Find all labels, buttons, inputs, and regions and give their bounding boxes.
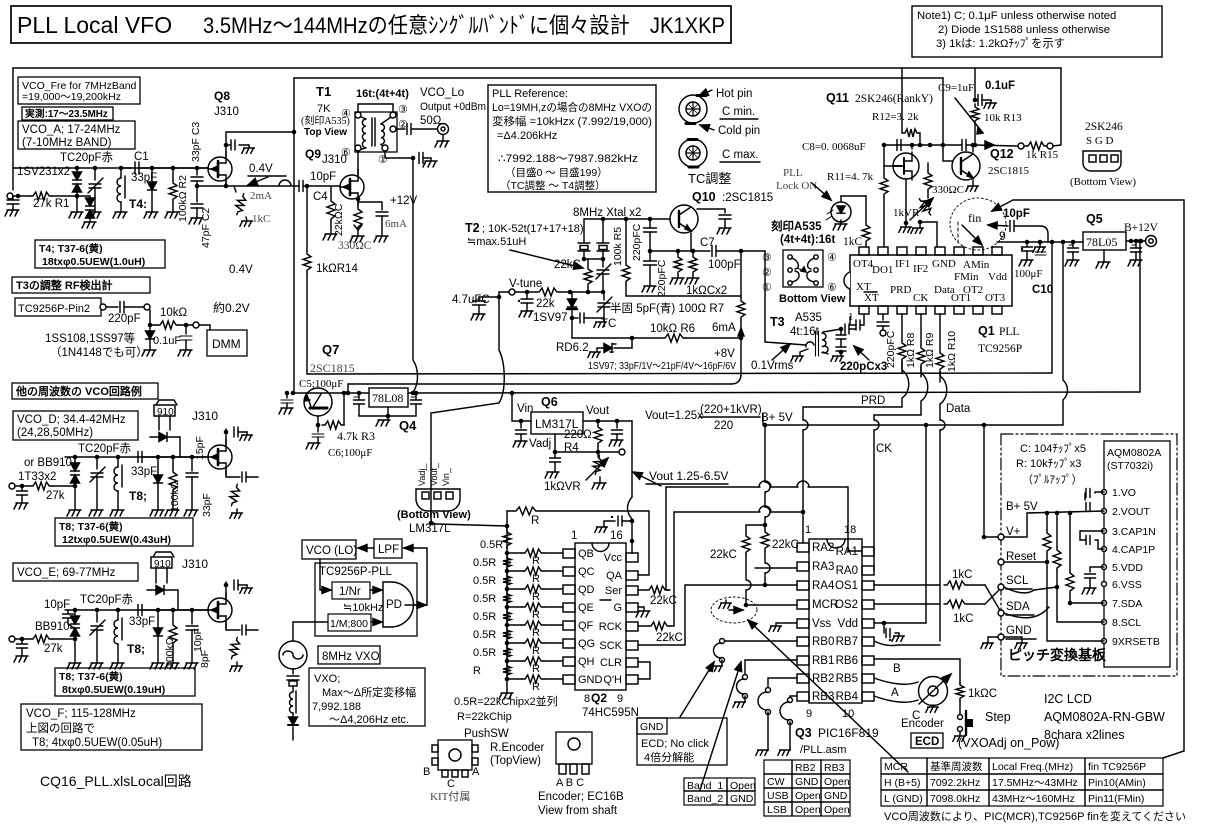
svg-text:100kΩ: 100kΩ bbox=[164, 637, 176, 668]
capacitor C1 33pF bbox=[121, 167, 131, 169]
svg-text:OT3: OT3 bbox=[985, 292, 1006, 304]
pushsw pkg bbox=[438, 740, 472, 770]
595 right pin stubs+labels bbox=[626, 553, 638, 562]
svg-text:VCO_F; 115-128MHz: VCO_F; 115-128MHz bbox=[26, 708, 136, 720]
resistor R2 100k bbox=[171, 166, 176, 171]
svg-text:220Ω: 220Ω bbox=[564, 429, 592, 441]
svg-text:0.5R: 0.5R bbox=[473, 647, 496, 659]
hot pin arrow+label bbox=[699, 90, 712, 96]
T1 winding right bbox=[381, 124, 384, 144]
LM317 adj pin bbox=[554, 434, 556, 452]
svg-text:C: C bbox=[447, 778, 455, 790]
svg-text:（目盛0 ～ 目盛199）: （目盛0 ～ 目盛199） bbox=[505, 166, 608, 179]
cap at B12 bbox=[1131, 248, 1142, 252]
svg-text:LPF: LPF bbox=[378, 544, 399, 556]
xtal bottom rail bbox=[584, 258, 603, 260]
svg-text:TC20pF赤: TC20pF赤 bbox=[78, 442, 132, 455]
line y145 bbox=[884, 144, 962, 146]
svg-text:2mA: 2mA bbox=[250, 190, 272, 202]
diode 910 VCO_E bbox=[156, 586, 164, 595]
svg-text:FMin: FMin bbox=[954, 271, 979, 283]
svg-text:330ΩC: 330ΩC bbox=[338, 240, 372, 252]
Q11 drain up bbox=[911, 145, 913, 149]
source bypass cap 6mA bbox=[358, 202, 382, 210]
svg-text:CK: CK bbox=[876, 443, 892, 455]
svg-text:GND: GND bbox=[578, 674, 603, 686]
220pC caps stack bbox=[845, 324, 849, 334]
series cap to trimmer bbox=[572, 317, 578, 319]
svg-text:9: 9 bbox=[617, 693, 623, 705]
svg-text:(4t+4t):16t: (4t+4t):16t bbox=[780, 234, 835, 246]
svg-text:ECD: ECD bbox=[915, 736, 939, 748]
wire y487 Ser to RA1 bbox=[666, 486, 760, 488]
svg-text:1kΩ R8: 1kΩ R8 bbox=[905, 333, 917, 368]
arrows into PD bbox=[370, 589, 382, 591]
svg-text:Q11: Q11 bbox=[826, 91, 849, 105]
svg-text:QB: QB bbox=[578, 548, 594, 560]
svg-text:VXO;: VXO; bbox=[314, 673, 340, 685]
resistor 100k R5 bbox=[625, 219, 627, 262]
svg-text:0.4V: 0.4V bbox=[249, 163, 273, 175]
svg-text:33pF: 33pF bbox=[129, 616, 155, 628]
svg-text:Q4: Q4 bbox=[399, 418, 417, 433]
varactor below bbox=[292, 713, 294, 717]
svg-text:100k R5: 100k R5 bbox=[612, 227, 624, 266]
arrow into 1/Nr bbox=[320, 589, 331, 591]
emitter resistors 1k Cx2 bbox=[677, 251, 679, 254]
transistor Q9 fet bbox=[340, 175, 364, 199]
Vin caps bbox=[520, 421, 522, 428]
cap C9 diag note line bbox=[955, 98, 983, 133]
ladder series R 6 bbox=[522, 639, 544, 647]
svg-text:10pF: 10pF bbox=[44, 599, 70, 611]
svg-text:6.VSS: 6.VSS bbox=[1112, 579, 1142, 591]
coax terminal bbox=[438, 124, 449, 135]
svg-text:V+: V+ bbox=[1006, 526, 1021, 538]
svg-text:TC9256P-PLL: TC9256P-PLL bbox=[319, 566, 392, 578]
more caps right bbox=[1068, 248, 1079, 252]
svg-text:1: 1 bbox=[848, 311, 854, 323]
svg-text:VCO (LO): VCO (LO) bbox=[306, 545, 357, 557]
capacitor C3 33pF bbox=[195, 166, 200, 171]
rail y78 bbox=[294, 77, 943, 79]
svg-text:J310: J310 bbox=[192, 409, 218, 423]
arrow gnd box bbox=[680, 662, 714, 717]
ladder 0.5R segment 2 bbox=[503, 555, 511, 570]
fin arrows bbox=[962, 225, 982, 245]
svg-text:8MHz VXO: 8MHz VXO bbox=[322, 651, 380, 663]
svg-text:上図の回路で: 上図の回路で bbox=[26, 721, 95, 735]
wire right vertical 984 to V+ bbox=[984, 425, 998, 537]
svg-text:8.SCL: 8.SCL bbox=[1112, 617, 1141, 629]
svg-text:QA: QA bbox=[606, 570, 623, 582]
svg-text:220pFC: 220pFC bbox=[656, 259, 668, 297]
svg-text:T1: T1 bbox=[316, 84, 331, 99]
svg-text:SDA: SDA bbox=[1006, 601, 1030, 613]
svg-text:220pF: 220pF bbox=[108, 313, 141, 325]
arrow mcr table bbox=[748, 620, 908, 772]
svg-text:C8=0. 0068uF: C8=0. 0068uF bbox=[802, 141, 866, 153]
G gnd bbox=[638, 607, 644, 611]
svg-text:1kC: 1kC bbox=[252, 213, 270, 225]
riser RCK x674 bbox=[673, 512, 675, 626]
svg-text:T2: T2 bbox=[465, 221, 480, 235]
svg-text:GND: GND bbox=[795, 776, 819, 788]
cold pin arrow+label bbox=[700, 125, 714, 130]
VCO freq note box bbox=[18, 77, 140, 104]
svg-text:GND: GND bbox=[640, 721, 664, 733]
svg-text:OS1: OS1 bbox=[835, 580, 858, 592]
svg-text:Q12: Q12 bbox=[990, 147, 1014, 161]
ground input bbox=[5, 210, 19, 216]
svg-text:RB3: RB3 bbox=[824, 762, 845, 774]
ladder 0.5R segment 6 bbox=[503, 627, 511, 642]
wire osc to 1/M bbox=[293, 622, 328, 641]
svg-text:22kC: 22kC bbox=[650, 595, 677, 607]
res R10 bbox=[939, 314, 941, 350]
adj cap bbox=[550, 458, 561, 462]
svg-text:1kC: 1kC bbox=[843, 236, 863, 248]
svg-text:VCO_A; 17-24MHz: VCO_A; 17-24MHz bbox=[22, 124, 121, 136]
title box bbox=[11, 6, 731, 43]
T3 adjust box bbox=[12, 277, 150, 293]
svg-text:③: ③ bbox=[398, 104, 408, 116]
svg-text:RB2: RB2 bbox=[795, 762, 816, 774]
wire input bus bbox=[13, 195, 30, 197]
svg-text:(Bottom View): (Bottom View) bbox=[1070, 176, 1136, 188]
svg-text:0.5R=22kChipx2並列: 0.5R=22kChipx2並列 bbox=[454, 694, 558, 708]
cap 220pF bbox=[106, 306, 118, 308]
Band table bbox=[684, 778, 755, 805]
595 left pin stubs+labels bbox=[563, 549, 575, 558]
svg-text:R.Encoder: R.Encoder bbox=[490, 742, 545, 754]
svg-text:PLL Local VFO: PLL Local VFO bbox=[17, 12, 172, 38]
svg-text:0.1uF: 0.1uF bbox=[985, 80, 1015, 92]
910 pkg VCO_E bbox=[151, 552, 174, 568]
adj wire bbox=[555, 451, 598, 453]
svg-text:①: ① bbox=[378, 154, 388, 166]
svg-text:100kΩ: 100kΩ bbox=[169, 481, 181, 512]
78L08 caps bbox=[358, 393, 360, 399]
svg-text:T4; T37-6(黄): T4; T37-6(黄) bbox=[39, 242, 103, 255]
svg-text:J310: J310 bbox=[322, 154, 347, 166]
IC Q1 TC9256P body bbox=[850, 255, 1012, 306]
wire fin rail bbox=[997, 241, 1083, 243]
svg-text:MCR: MCR bbox=[884, 761, 908, 773]
svg-text:Vin_: Vin_ bbox=[441, 467, 451, 486]
IC Q1 bottom pins bbox=[859, 306, 869, 314]
svg-text:QE: QE bbox=[578, 602, 594, 614]
svg-text:RA1: RA1 bbox=[836, 546, 858, 558]
svg-text:4倍分解能: 4倍分解能 bbox=[644, 750, 694, 764]
svg-text:7K: 7K bbox=[317, 103, 331, 115]
svg-text:AQM0802A: AQM0802A bbox=[1107, 447, 1161, 459]
A535 bottom view box bbox=[783, 250, 823, 287]
svg-text:=19,000～19,200kHz: =19,000～19,200kHz bbox=[22, 91, 121, 103]
svg-text:C6;100μF: C6;100μF bbox=[328, 447, 372, 459]
bus PRD bbox=[902, 362, 909, 407]
RB1 wire long bbox=[745, 660, 797, 677]
svg-text:1/Nr: 1/Nr bbox=[339, 586, 361, 598]
xtal below osc bbox=[292, 669, 294, 674]
TC9256P-Pin2 box bbox=[15, 298, 101, 316]
T3 primary leads bbox=[765, 342, 806, 345]
svg-text:1kΩCx2: 1kΩCx2 bbox=[686, 285, 727, 297]
svg-text:2SC1815: 2SC1815 bbox=[310, 361, 355, 375]
cap 4.7uF bbox=[479, 296, 499, 298]
T1 core bbox=[372, 118, 375, 146]
svg-text:C min.: C min. bbox=[722, 106, 755, 118]
cap C6 bbox=[317, 425, 319, 432]
svg-text:Band_2: Band_2 bbox=[687, 793, 723, 805]
svg-text:Q9: Q9 bbox=[305, 147, 321, 161]
svg-text:Step: Step bbox=[985, 710, 1011, 724]
svg-text:PIC16F819: PIC16F819 bbox=[818, 726, 879, 740]
svg-text:3.CAP1N: 3.CAP1N bbox=[1112, 526, 1156, 538]
capacitor C2 47pF bbox=[196, 186, 198, 202]
RB7 wire to Data bbox=[874, 641, 898, 646]
IC Q2 74HC595 body bbox=[575, 543, 626, 690]
svg-text:V-tune: V-tune bbox=[509, 278, 542, 290]
T2 arrow bbox=[510, 250, 583, 268]
T4 note box bbox=[35, 240, 165, 268]
78L05 gnd pin bbox=[1103, 250, 1105, 262]
svg-text:RB4: RB4 bbox=[836, 691, 859, 703]
resistor R7 vertical bbox=[737, 298, 745, 320]
svg-text:8txφ0.5UEW(0.19uH): 8txφ0.5UEW(0.19uH) bbox=[62, 684, 165, 696]
svg-text:10pF: 10pF bbox=[1003, 208, 1030, 220]
svg-text:5.VDD: 5.VDD bbox=[1112, 562, 1143, 574]
IC Q3 PIC16F819 body bbox=[809, 539, 862, 703]
wire bus B5V horizontal bbox=[763, 414, 1063, 425]
svg-text:16: 16 bbox=[610, 530, 623, 542]
res 10k bbox=[150, 310, 157, 325]
RB6 wire bbox=[874, 659, 960, 684]
svg-text:～Δ4,206Hz etc.: ～Δ4,206Hz etc. bbox=[329, 714, 409, 726]
T3 transformer bbox=[816, 331, 819, 356]
svg-text:8pF: 8pF bbox=[199, 650, 211, 668]
pullup1 down to MCR ellipse bbox=[745, 555, 747, 579]
cap det bbox=[185, 325, 187, 334]
Vcc bypass cap bbox=[618, 516, 622, 526]
svg-text:GND: GND bbox=[1006, 625, 1032, 637]
V-tune terminal bbox=[509, 289, 515, 295]
res 22k vtune bbox=[536, 288, 560, 296]
VCO_F box bbox=[21, 704, 202, 750]
trimmer cap TC20pF bbox=[93, 166, 98, 171]
caps cap1n/p bbox=[1086, 536, 1090, 545]
svg-text:TC調整: TC調整 bbox=[688, 171, 731, 186]
1kC resistor LED bbox=[862, 222, 870, 244]
svg-text:1kΩ R9: 1kΩ R9 bbox=[924, 333, 936, 368]
varactor D2 lower bbox=[73, 184, 82, 192]
R5 bottom line to R7 bbox=[626, 295, 741, 297]
Q7 emitter R3 bbox=[317, 416, 319, 425]
svg-text:RB0: RB0 bbox=[812, 636, 834, 648]
riser SCK x685 to RA4 bbox=[638, 585, 797, 645]
svg-text:R: R bbox=[531, 515, 539, 527]
svg-text:Q8: Q8 bbox=[214, 89, 230, 103]
svg-text:C: 104ﾁｯﾌﾟx5: C: 104ﾁｯﾌﾟx5 bbox=[1020, 442, 1086, 455]
svg-text:100kΩ R2: 100kΩ R2 bbox=[177, 175, 189, 222]
svg-text:Data: Data bbox=[946, 403, 971, 415]
ladder series R 5 bbox=[522, 621, 544, 629]
svg-text:Cold pin: Cold pin bbox=[718, 125, 760, 137]
svg-text:SCL: SCL bbox=[1006, 575, 1029, 587]
svg-text:17.5MHz～43MHz: 17.5MHz～43MHz bbox=[992, 777, 1078, 789]
jumper band2 bbox=[743, 675, 748, 680]
svg-text:8MHz Xtal x2: 8MHz Xtal x2 bbox=[573, 207, 641, 219]
svg-text:2.VOUT: 2.VOUT bbox=[1112, 506, 1151, 518]
T3 secondary bottom bbox=[823, 352, 828, 354]
svg-text:T8; T37-6(黄): T8; T37-6(黄) bbox=[59, 520, 123, 533]
svg-text:6mA: 6mA bbox=[712, 322, 736, 334]
B5V wire into board bbox=[1004, 511, 1104, 537]
svg-text:T3: T3 bbox=[770, 315, 785, 329]
VXO note box bbox=[309, 668, 425, 726]
svg-text:Q7: Q7 bbox=[322, 342, 339, 357]
svg-text:QD: QD bbox=[578, 584, 595, 596]
svg-text:(220+1kVR): (220+1kVR) bbox=[700, 404, 762, 416]
svg-text:Vout: Vout bbox=[586, 405, 610, 417]
VCO_D label box bbox=[13, 411, 138, 440]
svg-text:TC9256P: TC9256P bbox=[978, 343, 1022, 355]
rail y373 8V-ish bbox=[307, 373, 1052, 374]
V-tune feed S-wire bbox=[431, 292, 507, 526]
svg-text:3) 1kは: 1.2kΩﾁｯﾌﾟを示す: 3) 1kは: 1.2kΩﾁｯﾌﾟを示す bbox=[936, 37, 1065, 50]
svg-text:220pFC: 220pFC bbox=[885, 330, 897, 368]
svg-text:4.7k R3: 4.7k R3 bbox=[337, 429, 375, 443]
LCD pins bbox=[1102, 490, 1107, 495]
svg-text:43MHz～160MHz: 43MHz～160MHz bbox=[992, 793, 1075, 805]
svg-text:/PLL.asm: /PLL.asm bbox=[800, 744, 846, 756]
2SK246 package outline bbox=[1083, 151, 1121, 171]
svg-text:Vdd: Vdd bbox=[988, 271, 1007, 283]
res R8 bbox=[901, 314, 903, 340]
transistor Q7 bbox=[304, 388, 332, 416]
wire osc to T3 riser bbox=[764, 251, 766, 342]
svg-text:ピッチ変換基板: ピッチ変換基板 bbox=[1008, 647, 1107, 663]
svg-text:18: 18 bbox=[844, 524, 856, 536]
svg-text:QF: QF bbox=[578, 620, 594, 632]
svg-text:1kC: 1kC bbox=[952, 569, 972, 581]
svg-text:J310: J310 bbox=[214, 106, 239, 118]
svg-text:1kΩVR: 1kΩVR bbox=[544, 481, 581, 493]
svg-text:0.5R: 0.5R bbox=[473, 575, 496, 587]
svg-text:PRD: PRD bbox=[861, 395, 885, 407]
wire vco to 1nr bbox=[319, 559, 321, 590]
svg-text:Q3: Q3 bbox=[795, 726, 812, 740]
svg-text:他の周波数の VCO回路例: 他の周波数の VCO回路例 bbox=[15, 384, 142, 398]
svg-text:RA3: RA3 bbox=[812, 561, 834, 573]
ladder 0.5R segment 5 bbox=[503, 609, 511, 624]
T1 transformer box bbox=[355, 112, 397, 152]
rail y393 +12V dist bbox=[293, 392, 369, 394]
R top to QA bbox=[506, 511, 508, 526]
Q12 npn bbox=[952, 152, 980, 180]
svg-text:Encoder; EC16B: Encoder; EC16B bbox=[538, 791, 624, 803]
wire y512 RCK to pin1 bbox=[674, 511, 760, 513]
Q11 gate wire bbox=[884, 165, 893, 167]
T8 note box VCO_E bbox=[55, 668, 195, 696]
svg-text:22kC: 22kC bbox=[554, 259, 581, 271]
ladder series R 1 bbox=[522, 549, 544, 557]
svg-text:22kC: 22kC bbox=[710, 549, 737, 561]
svg-text:RA4: RA4 bbox=[812, 580, 835, 592]
LM317L box bbox=[531, 412, 583, 434]
svg-text:R: R bbox=[473, 665, 481, 677]
svg-text:1SV97: 1SV97 bbox=[533, 312, 568, 324]
svg-text:VCO_Lo: VCO_Lo bbox=[420, 87, 464, 99]
Vdd wire bbox=[874, 622, 926, 624]
PD shape bbox=[383, 582, 414, 627]
svg-text:SCK: SCK bbox=[599, 640, 622, 652]
svg-text:Top View: Top View bbox=[304, 127, 347, 138]
svg-text:RA0: RA0 bbox=[836, 565, 858, 577]
svg-text:BB910: BB910 bbox=[35, 621, 70, 633]
cap C9 bbox=[962, 140, 966, 151]
svg-text:T8;: T8; bbox=[129, 489, 147, 503]
svg-text:GND: GND bbox=[932, 258, 956, 270]
ladder series R 4 bbox=[522, 603, 544, 611]
svg-text:0.5R: 0.5R bbox=[480, 539, 503, 551]
RCK resistor 22kC bbox=[638, 625, 648, 627]
crossover X bbox=[985, 585, 1001, 612]
Q9 gate resistor 22k bbox=[330, 187, 332, 198]
svg-text:1kC: 1kC bbox=[953, 613, 973, 625]
svg-text:∴7992.188～7987.982kHz: ∴7992.188～7987.982kHz bbox=[498, 153, 638, 165]
svg-text:④: ④ bbox=[827, 252, 837, 264]
ladder 0.5R segment 3 bbox=[503, 573, 511, 588]
T1 top link wires bbox=[358, 104, 393, 112]
svg-text:Q2: Q2 bbox=[591, 691, 607, 705]
svg-text:9XRSETB: 9XRSETB bbox=[1112, 636, 1160, 648]
svg-text:Q1: Q1 bbox=[978, 324, 995, 338]
res R4 bbox=[583, 420, 632, 422]
svg-text:100pF: 100pF bbox=[708, 259, 741, 271]
svg-text:33pF C3: 33pF C3 bbox=[190, 122, 202, 162]
ladder 0.5R segment 8 bbox=[503, 663, 511, 678]
svg-text:A: A bbox=[472, 766, 480, 778]
res 22kC pullups bbox=[742, 533, 750, 555]
Q8 drain wire to rail bbox=[226, 132, 294, 157]
TC trimmer bbox=[603, 292, 605, 300]
svg-text::2SC1815: :2SC1815 bbox=[722, 192, 773, 204]
svg-text:Q6: Q6 bbox=[541, 395, 558, 409]
svg-text:R12=3. 2k: R12=3. 2k bbox=[872, 111, 919, 123]
svg-text:8: 8 bbox=[584, 693, 590, 705]
input terminal bbox=[7, 193, 13, 199]
varactor pair second column bbox=[89, 196, 91, 198]
osc trimmer bbox=[602, 259, 604, 267]
jumper RB0 wire bbox=[725, 640, 797, 642]
svg-text:S G D: S G D bbox=[1086, 135, 1114, 147]
svg-text:0.5R: 0.5R bbox=[473, 629, 496, 641]
wire Vout loop right bbox=[631, 421, 633, 497]
svg-text:1k R15: 1k R15 bbox=[1026, 149, 1059, 161]
svg-text:DO1: DO1 bbox=[872, 264, 893, 276]
svg-text:View from shaft: View from shaft bbox=[538, 805, 618, 817]
svg-text:2SK246: 2SK246 bbox=[1085, 121, 1123, 133]
diode 910 VCO_D bbox=[159, 433, 167, 442]
svg-text:2) Diode 1S1588 unless otherwi: 2) Diode 1S1588 unless otherwise bbox=[938, 24, 1110, 36]
svg-text:(TopView): (TopView) bbox=[490, 755, 541, 767]
910 varactor pkg top VCO_D bbox=[154, 400, 177, 416]
arrow into LPF bbox=[404, 547, 420, 549]
MCR table bbox=[881, 758, 1163, 806]
resistor R1 27k bbox=[30, 192, 52, 200]
DMM box bbox=[207, 330, 247, 356]
